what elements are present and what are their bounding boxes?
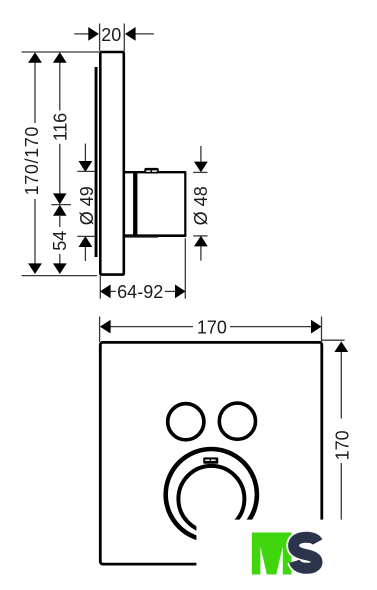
logo S [294, 537, 318, 568]
svg-text:64-92: 64-92 [117, 282, 163, 302]
dim 170 right: line + arrow [340, 351, 342, 419]
small button right [219, 403, 255, 439]
bottom extension line [22, 275, 97, 277]
knob base bar [133, 172, 137, 236]
svg-text:Ø 48: Ø 48 [191, 186, 211, 225]
dim d48: ticks [193, 171, 207, 173]
dim 170 top: extension lines [99, 317, 101, 343]
small button left [168, 404, 204, 440]
wall seal strip [95, 67, 98, 257]
dim 64-92: right arrow [175, 285, 186, 299]
dim d49: upper arrow [84, 144, 86, 163]
logo M [252, 533, 292, 575]
dim 170 right: extension line [322, 339, 345, 341]
svg-text:170/170: 170/170 [22, 126, 42, 195]
dim d49: ticks [77, 170, 94, 172]
dim d48: lower arrow [200, 246, 202, 261]
svg-text:170: 170 [332, 430, 352, 460]
svg-text:54: 54 [50, 231, 70, 251]
dim 64-92: extension lines [99, 276, 101, 299]
knob bottom edge [123, 234, 186, 237]
dim d48: upper arrow [200, 146, 202, 163]
dim 20: extension lines [99, 24, 101, 52]
dim 20: right arrow [134, 33, 154, 35]
junction tick [51, 204, 71, 206]
plate [100, 342, 321, 564]
svg-text:Ø 49: Ø 49 [77, 186, 97, 225]
dim 116: line [59, 60, 61, 111]
knob top edge [123, 171, 185, 173]
dim d49: lower arrow [84, 246, 86, 261]
dim 54: line [59, 215, 61, 227]
svg-text:170: 170 [197, 317, 227, 337]
knob safety tab (front) [203, 457, 218, 463]
dim d49: tick under knob [126, 236, 159, 238]
dim 20: left arrow [74, 33, 90, 35]
escutcheon body [100, 52, 124, 275]
knob inner ring [178, 466, 244, 532]
knob safety tab (side) [144, 168, 159, 174]
svg-text:116: 116 [50, 113, 70, 141]
svg-text:20: 20 [101, 25, 121, 45]
knob outer ring [166, 449, 257, 540]
junction arrows 116/54 [53, 193, 67, 204]
top extension line [22, 51, 99, 53]
dim 170 top: line + arrows [110, 326, 194, 328]
logo S halo [294, 537, 318, 568]
watermark white box [196, 520, 377, 590]
dim 170/170: line [34, 60, 36, 123]
dim 64-92: left arrow [100, 285, 111, 299]
knob right edge [184, 171, 186, 237]
